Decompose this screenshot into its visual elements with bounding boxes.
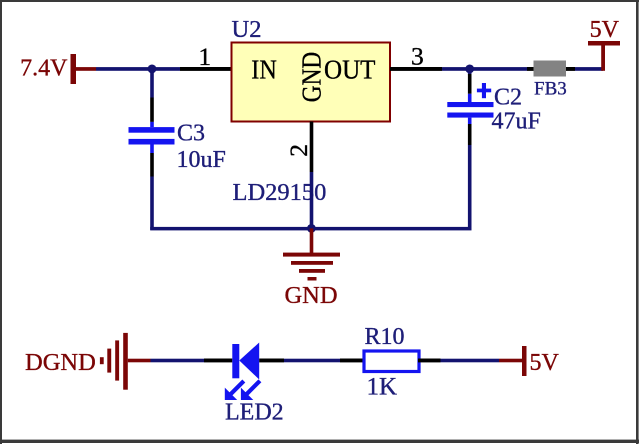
- port DGND: [25, 333, 151, 390]
- wire pin2 to bottom rail: [310, 172, 314, 228]
- wire LED2 to R10: [284, 359, 340, 363]
- svg-text:10uF: 10uF: [177, 147, 226, 173]
- port 7.4V: [20, 54, 96, 84]
- svg-text:R10: R10: [365, 324, 405, 350]
- port 5V bottom: [499, 346, 560, 376]
- svg-text:5V: 5V: [530, 350, 560, 376]
- svg-text:U2: U2: [232, 16, 262, 43]
- capacitor C3: [129, 98, 226, 177]
- svg-text:DGND: DGND: [25, 349, 96, 376]
- svg-text:1: 1: [198, 42, 211, 71]
- capacitor C2 polarized: [447, 74, 541, 145]
- wire 7.4V to junction to pin1: [96, 67, 180, 71]
- wire FB3 to 5V corner: [575, 67, 603, 71]
- svg-text:FB3: FB3: [534, 79, 567, 100]
- ground GND symbol: [283, 228, 340, 308]
- wire pin3 to FB3: [442, 67, 527, 71]
- wire C3 down to bottom rail: [150, 177, 154, 230]
- wire junction down to C3: [150, 69, 154, 98]
- svg-text:5V: 5V: [590, 17, 620, 43]
- junction node at C2 tap: [465, 65, 474, 74]
- svg-text:GND: GND: [284, 282, 337, 309]
- svg-text:2: 2: [284, 144, 313, 157]
- svg-text:47uF: 47uF: [492, 109, 541, 135]
- bottom rail wire: [150, 227, 471, 231]
- svg-text:3: 3: [411, 42, 424, 71]
- svg-text:C2: C2: [494, 85, 522, 111]
- svg-text:C3: C3: [177, 121, 205, 147]
- wire DGND to LED2: [151, 359, 205, 363]
- resistor R10: [340, 324, 441, 401]
- svg-text:1K: 1K: [367, 373, 398, 400]
- wire R10 to 5V: [441, 359, 500, 363]
- pin 3 of U2: [390, 42, 442, 71]
- port 5V top: [588, 17, 620, 71]
- pin 1 of U2: [180, 42, 232, 71]
- wire junction down to C2: [468, 69, 472, 75]
- junction node at GND tap: [307, 224, 316, 233]
- svg-text:GND: GND: [296, 52, 326, 103]
- svg-text:LED2: LED2: [225, 399, 284, 425]
- junction node at C3 tap: [148, 65, 157, 74]
- wire C2 down to bottom rail: [468, 145, 472, 230]
- pin 2 of U2: [284, 122, 313, 173]
- ferrite bead FB3: [527, 61, 575, 100]
- regulator U2: [232, 16, 391, 122]
- svg-text:IN: IN: [251, 54, 276, 84]
- svg-text:OUT: OUT: [324, 54, 376, 84]
- svg-text:7.4V: 7.4V: [20, 56, 68, 82]
- LED LED2: [204, 343, 284, 426]
